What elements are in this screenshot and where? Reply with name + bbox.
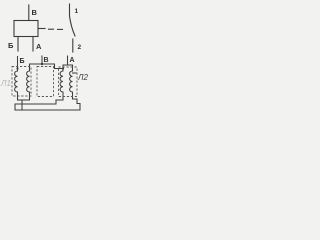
- core box 1: [12, 67, 31, 97]
- contact terminal 1: [69, 4, 71, 16]
- svg-text:В: В: [32, 8, 38, 17]
- svg-text:Л2: Л2: [77, 73, 88, 82]
- winding W3: [60, 69, 63, 101]
- svg-text:Б: Б: [8, 41, 14, 50]
- contact blade: [70, 16, 76, 36]
- bus W1-W2 bottoms: [18, 99, 30, 101]
- labels bottom figure: [20, 57, 75, 65]
- svg-text:А: А: [70, 57, 75, 64]
- svg-text:1: 1: [75, 8, 79, 15]
- polarity dot W1: [16, 67, 18, 69]
- svg-text:В: В: [44, 57, 49, 64]
- drop wire to outer bus: [21, 100, 23, 110]
- junction dots: [16, 63, 64, 70]
- svg-text:Б: Б: [20, 58, 25, 65]
- svg-text:Л1: Л1: [0, 79, 11, 88]
- mechanical link dashed: [49, 28, 54, 30]
- device box (top symbol): [14, 21, 38, 37]
- core box 2 (empty): [37, 67, 54, 97]
- phase line V (middle): [41, 56, 43, 64]
- svg-text:2: 2: [78, 44, 82, 51]
- terminal tick L2: [73, 72, 77, 74]
- phase line A with T-bar to windings: [63, 56, 73, 71]
- contact terminal 2: [72, 39, 74, 52]
- winding W4: [70, 71, 73, 99]
- core box 3: [59, 67, 78, 97]
- node V junction: [41, 63, 43, 65]
- svg-text:А: А: [36, 42, 42, 51]
- labels top figure: [8, 8, 82, 51]
- winding W2: [27, 71, 30, 100]
- winding W1: [15, 71, 18, 100]
- polarity dot W3: [62, 67, 64, 69]
- phase line B (left): [17, 57, 19, 72]
- pin stub right: [38, 28, 45, 30]
- pin B top: [28, 5, 30, 21]
- pin B bottom-left: [17, 37, 19, 52]
- dashed cores: [12, 67, 77, 97]
- pin A bottom-right: [32, 37, 34, 52]
- wire W3 bottom loop: [15, 99, 80, 110]
- top link winding2 to V to box3: [30, 64, 64, 71]
